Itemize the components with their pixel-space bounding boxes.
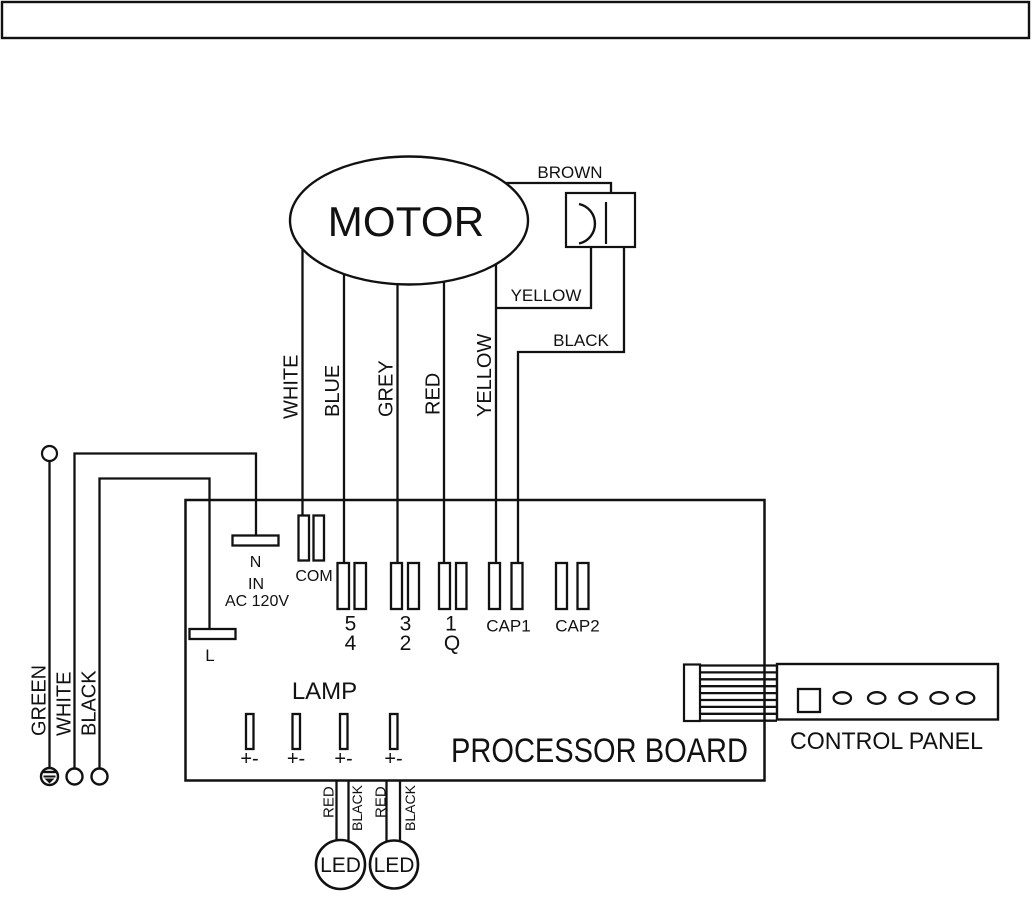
- svg-text:4: 4: [345, 632, 357, 655]
- svg-text:N: N: [250, 554, 262, 571]
- svg-text:RED: RED: [321, 786, 338, 818]
- wire YELLOW motor to CAP1: [495, 264, 497, 563]
- capacitor C1 box: [566, 193, 635, 247]
- wire WHITE motor to COM: [301, 249, 303, 515]
- svg-text:MOTOR: MOTOR: [328, 198, 485, 245]
- connector 1/Q pin 1: [439, 563, 450, 609]
- connector COM pin 2: [314, 516, 325, 561]
- wire GREEN: [48, 461, 50, 768]
- connector 3/2 pin 3: [391, 563, 402, 609]
- connector LAMP terminal 3: [340, 714, 348, 749]
- header box: [2, 2, 1029, 38]
- svg-text:AC 120V: AC 120V: [225, 593, 289, 610]
- LED D1: [316, 840, 365, 889]
- svg-text:CAP2: CAP2: [555, 617, 599, 636]
- svg-text:BLACK: BLACK: [79, 670, 101, 736]
- svg-text:+-: +-: [384, 748, 402, 770]
- connector ribbon header J1: [684, 665, 700, 722]
- svg-text:+-: +-: [240, 748, 258, 770]
- svg-text:LED: LED: [320, 854, 361, 877]
- connector 1/Q pin Q: [456, 563, 467, 609]
- control panel led hole 4: [930, 692, 947, 704]
- svg-text:WHITE: WHITE: [54, 672, 76, 736]
- wire BLACK capacitor to CAP1: [518, 247, 624, 563]
- svg-text:LED: LED: [374, 854, 415, 877]
- connector LAMP terminal 1: [246, 714, 254, 749]
- motor M1: [290, 157, 528, 285]
- svg-text:BLACK: BLACK: [553, 331, 609, 350]
- connector 5/4 pin 4: [355, 563, 367, 609]
- svg-text:YELLOW: YELLOW: [474, 334, 496, 417]
- connector CAP2 pin 2: [578, 563, 589, 609]
- svg-text:YELLOW: YELLOW: [511, 286, 582, 305]
- svg-text:+-: +-: [334, 748, 352, 770]
- svg-text:2: 2: [400, 632, 412, 655]
- wire RED led1: [335, 781, 337, 842]
- svg-text:BLACK: BLACK: [402, 784, 418, 831]
- svg-text:+-: +-: [287, 748, 305, 770]
- wire BLUE motor to 5: [343, 274, 345, 563]
- wire GREY motor to 3: [396, 284, 398, 563]
- wire RED motor to 1: [443, 282, 445, 563]
- svg-text:RED: RED: [423, 373, 445, 415]
- ground terminal (green): [41, 768, 58, 785]
- control panel led hole 1: [834, 692, 851, 704]
- svg-text:L: L: [205, 646, 214, 665]
- connector L: [190, 629, 236, 639]
- svg-text:PROCESSOR BOARD: PROCESSOR BOARD: [451, 732, 748, 770]
- svg-text:WHITE: WHITE: [281, 355, 303, 419]
- connector CAP2 pin 1: [556, 563, 567, 609]
- connector 3/2 pin 2: [408, 563, 419, 609]
- connector LAMP terminal 4: [390, 714, 398, 749]
- svg-text:CONTROL PANEL: CONTROL PANEL: [790, 728, 983, 755]
- connector CAP1 pin 1: [489, 563, 500, 609]
- node white terminal: [67, 769, 83, 785]
- wire YELLOW capacitor jumper: [496, 247, 591, 308]
- control panel box: [777, 664, 998, 720]
- control panel button square: [798, 689, 820, 712]
- wire RED led2: [385, 781, 387, 842]
- svg-text:CAP1: CAP1: [486, 617, 530, 636]
- svg-text:GREEN: GREEN: [29, 665, 51, 736]
- svg-text:LAMP: LAMP: [292, 678, 357, 705]
- ribbon cable wires: [700, 666, 777, 721]
- svg-text:Q: Q: [444, 632, 460, 655]
- connector LAMP terminal 2: [293, 714, 301, 749]
- connector CAP1 pin 2: [512, 563, 523, 609]
- svg-text:COM: COM: [295, 568, 332, 585]
- node green terminal top: [42, 446, 57, 461]
- wire BLACK ac input: [100, 479, 210, 769]
- node black terminal: [92, 769, 108, 785]
- svg-text:GREY: GREY: [376, 360, 398, 417]
- connector COM pin 1: [299, 516, 310, 561]
- processor board outline: [186, 500, 765, 781]
- wire BLACK led1: [347, 781, 349, 842]
- control panel led hole 2: [868, 692, 885, 704]
- svg-text:BLACK: BLACK: [349, 784, 365, 831]
- wire BROWN motor to capacitor: [505, 183, 611, 193]
- connector 5/4 pin 5: [338, 563, 350, 609]
- svg-text:RED: RED: [373, 786, 390, 818]
- connector N: [233, 536, 279, 546]
- svg-text:BLUE: BLUE: [322, 365, 344, 417]
- control panel led hole 5: [957, 692, 974, 704]
- svg-text:IN: IN: [248, 576, 264, 593]
- svg-text:BROWN: BROWN: [537, 163, 602, 182]
- wire WHITE ac input: [75, 454, 257, 769]
- LED D2: [370, 841, 418, 889]
- wire BLACK led2: [399, 781, 401, 842]
- control panel led hole 3: [899, 692, 916, 704]
